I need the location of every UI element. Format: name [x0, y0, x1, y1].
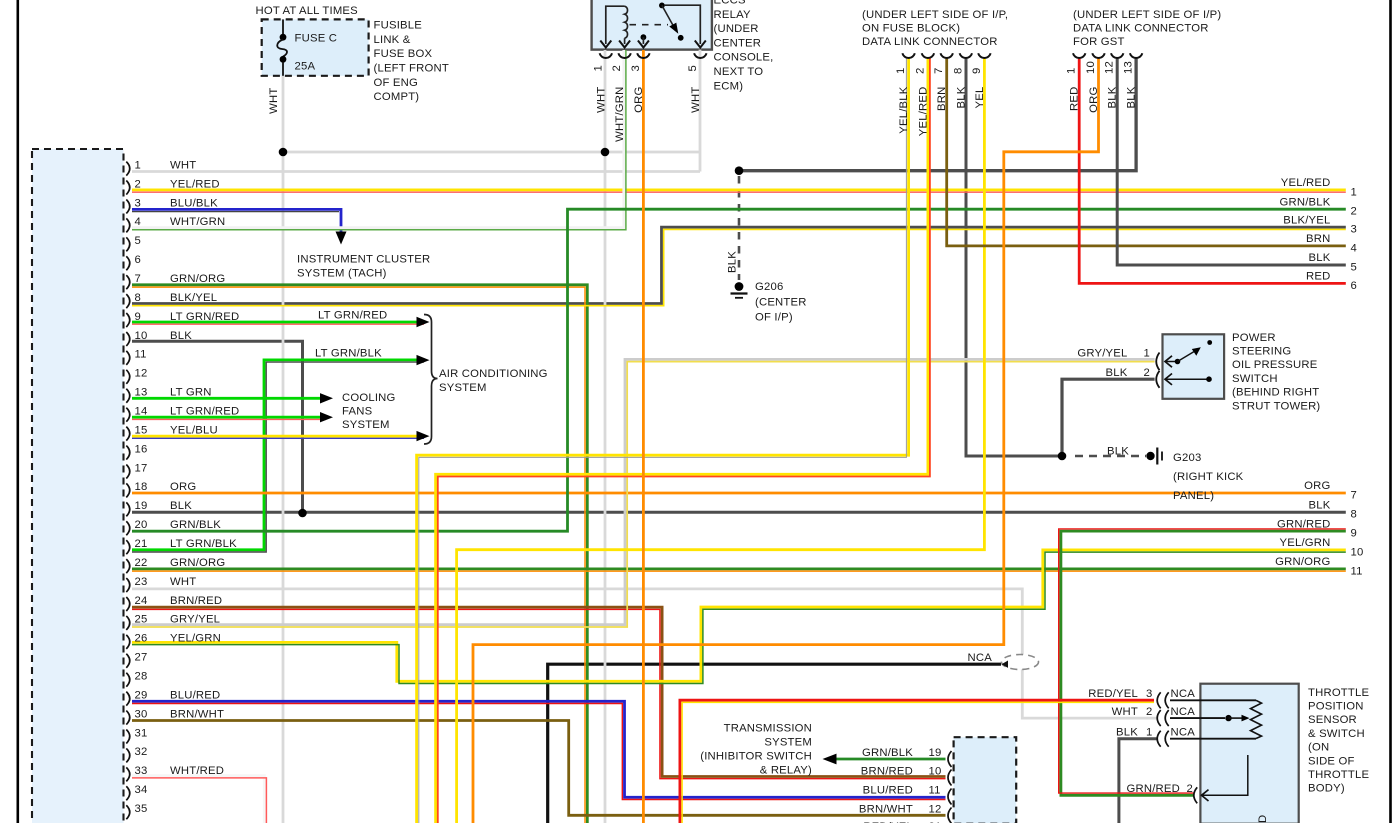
svg-text:27: 27: [135, 652, 148, 664]
svg-text:BLK: BLK: [1309, 252, 1331, 264]
svg-text:GRN/BLK: GRN/BLK: [862, 747, 913, 759]
svg-text:(RIGHT KICK: (RIGHT KICK: [1173, 471, 1244, 483]
svg-text:WHT: WHT: [268, 88, 280, 114]
svg-text:SYSTEM: SYSTEM: [439, 382, 487, 394]
svg-text:20: 20: [135, 519, 148, 531]
svg-text:(LEFT FRONT: (LEFT FRONT: [374, 63, 449, 75]
svg-text:CONSOLE,: CONSOLE,: [714, 52, 774, 64]
svg-text:GRY/YEL: GRY/YEL: [1077, 347, 1127, 359]
svg-text:9: 9: [971, 68, 983, 74]
svg-text:6: 6: [1351, 280, 1357, 292]
svg-text:3: 3: [1351, 224, 1357, 236]
svg-text:33: 33: [135, 765, 148, 777]
svg-text:BLU/BLK: BLU/BLK: [170, 197, 218, 209]
svg-text:12: 12: [135, 368, 148, 380]
svg-text:6: 6: [135, 254, 141, 266]
svg-text:HOT AT ALL TIMES: HOT AT ALL TIMES: [256, 5, 359, 17]
svg-text:G203: G203: [1173, 452, 1201, 464]
svg-text:G206: G206: [755, 281, 783, 293]
svg-text:AIR CONDITIONING: AIR CONDITIONING: [439, 368, 548, 380]
svg-text:INSTRUMENT CLUSTER: INSTRUMENT CLUSTER: [297, 254, 430, 266]
svg-text:CENTER: CENTER: [714, 37, 762, 49]
svg-text:11: 11: [135, 349, 147, 361]
svg-text:BLU/RED: BLU/RED: [863, 785, 913, 797]
svg-text:23: 23: [135, 576, 148, 588]
svg-text:31: 31: [135, 727, 148, 739]
svg-text:7: 7: [933, 68, 945, 74]
svg-text:22: 22: [135, 557, 148, 569]
svg-text:3: 3: [630, 65, 642, 71]
svg-text:25: 25: [135, 614, 148, 626]
svg-text:8: 8: [1351, 509, 1357, 521]
svg-text:FOR GST: FOR GST: [1073, 36, 1125, 48]
svg-text:YEL: YEL: [974, 87, 986, 109]
svg-text:10: 10: [1085, 61, 1097, 74]
svg-text:SYSTEM: SYSTEM: [342, 419, 390, 431]
svg-text:30: 30: [135, 708, 148, 720]
svg-text:LT GRN/BLK: LT GRN/BLK: [170, 538, 237, 550]
svg-text:11: 11: [1351, 565, 1363, 577]
svg-text:2: 2: [1351, 206, 1357, 218]
svg-text:NCA: NCA: [968, 652, 993, 664]
svg-text:1: 1: [895, 68, 907, 74]
svg-text:POSITION: POSITION: [1308, 701, 1364, 713]
svg-text:COMPT): COMPT): [374, 91, 420, 103]
svg-text:16: 16: [135, 443, 148, 455]
svg-text:THROTTLE: THROTTLE: [1308, 687, 1369, 699]
svg-text:FUSE C: FUSE C: [295, 33, 338, 45]
svg-text:4: 4: [135, 216, 141, 228]
svg-text:& SWITCH: & SWITCH: [1308, 728, 1365, 740]
svg-text:YEL/BLU: YEL/BLU: [170, 424, 218, 436]
svg-text:15: 15: [135, 424, 148, 436]
svg-text:YEL/RED: YEL/RED: [1281, 177, 1331, 189]
svg-text:GRN/ORG: GRN/ORG: [1275, 556, 1330, 568]
svg-text:& RELAY): & RELAY): [760, 765, 812, 777]
svg-text:GRY/YEL: GRY/YEL: [170, 614, 220, 626]
svg-text:1: 1: [1351, 186, 1357, 198]
svg-text:OIL PRESSURE: OIL PRESSURE: [1232, 359, 1318, 371]
svg-text:ORG: ORG: [170, 481, 196, 493]
svg-text:BRN: BRN: [936, 87, 948, 111]
svg-text:NEXT TO: NEXT TO: [714, 66, 764, 78]
svg-text:18: 18: [135, 481, 148, 493]
svg-text:DATA LINK CONNECTOR: DATA LINK CONNECTOR: [862, 36, 998, 48]
svg-text:2: 2: [1146, 706, 1152, 718]
svg-text:BLK: BLK: [1107, 86, 1119, 108]
svg-text:OF ENG: OF ENG: [374, 77, 419, 89]
svg-text:21: 21: [135, 538, 148, 550]
svg-text:(UNDER: (UNDER: [714, 23, 759, 35]
svg-text:(INHIBITOR SWITCH: (INHIBITOR SWITCH: [700, 751, 812, 763]
svg-text:BLK: BLK: [955, 86, 967, 108]
svg-text:5: 5: [1351, 261, 1357, 273]
svg-text:BLU/RED: BLU/RED: [170, 689, 220, 701]
svg-text:WHT/RED: WHT/RED: [170, 765, 224, 777]
svg-text:8: 8: [952, 68, 964, 74]
svg-text:LT GRN/RED: LT GRN/RED: [170, 311, 239, 323]
svg-text:(ON: (ON: [1308, 742, 1329, 754]
svg-text:SWITCH: SWITCH: [1232, 373, 1278, 385]
svg-text:24: 24: [135, 595, 148, 607]
svg-text:ORG: ORG: [633, 87, 645, 113]
svg-text:BRN/RED: BRN/RED: [861, 766, 913, 778]
svg-text:2: 2: [135, 178, 141, 190]
svg-text:YEL/GRN: YEL/GRN: [1280, 537, 1331, 549]
svg-text:25A: 25A: [295, 61, 316, 73]
svg-text:3: 3: [1146, 688, 1152, 700]
svg-text:19: 19: [135, 500, 148, 512]
svg-text:9: 9: [1351, 528, 1357, 540]
svg-text:STEERING: STEERING: [1232, 346, 1291, 358]
svg-text:1: 1: [1144, 347, 1150, 359]
svg-text:12: 12: [1104, 61, 1116, 74]
svg-text:SYSTEM (TACH): SYSTEM (TACH): [297, 268, 387, 280]
svg-text:34: 34: [135, 784, 148, 796]
svg-text:GRN/RED: GRN/RED: [1277, 518, 1331, 530]
svg-text:11: 11: [929, 785, 941, 797]
svg-text:8: 8: [135, 292, 141, 304]
svg-text:3: 3: [135, 197, 141, 209]
svg-text:GRN/ORG: GRN/ORG: [170, 273, 225, 285]
svg-text:7: 7: [1351, 489, 1357, 501]
svg-text:OF I/P): OF I/P): [755, 312, 793, 324]
svg-text:TRANSMISSION: TRANSMISSION: [724, 723, 812, 735]
svg-text:SENSOR: SENSOR: [1308, 714, 1357, 726]
svg-text:5: 5: [687, 65, 699, 71]
svg-text:YEL/RED: YEL/RED: [170, 178, 220, 190]
svg-text:STRUT TOWER): STRUT TOWER): [1232, 400, 1320, 412]
svg-text:2: 2: [914, 68, 926, 74]
svg-text:D: D: [1257, 815, 1269, 823]
svg-text:LT GRN/RED: LT GRN/RED: [170, 405, 239, 417]
svg-text:BLK: BLK: [1309, 500, 1331, 512]
svg-text:7: 7: [135, 273, 141, 285]
svg-text:NCA: NCA: [1171, 688, 1196, 700]
svg-text:NCA: NCA: [1171, 727, 1196, 739]
svg-text:35: 35: [135, 803, 148, 815]
svg-text:BRN: BRN: [1306, 233, 1330, 245]
svg-text:RED/YEL: RED/YEL: [1088, 688, 1138, 700]
svg-text:13: 13: [1123, 61, 1135, 74]
svg-text:32: 32: [135, 746, 148, 758]
svg-text:1: 1: [592, 65, 604, 71]
svg-text:GRN/BLK: GRN/BLK: [1280, 196, 1331, 208]
svg-text:14: 14: [135, 405, 148, 417]
svg-text:WHT: WHT: [690, 87, 702, 113]
svg-text:COOLING: COOLING: [342, 392, 396, 404]
svg-text:FUSIBLE: FUSIBLE: [374, 20, 423, 32]
svg-text:4: 4: [1351, 242, 1357, 254]
svg-text:LT GRN/BLK: LT GRN/BLK: [315, 348, 382, 360]
svg-text:THROTTLE: THROTTLE: [1308, 769, 1369, 781]
svg-text:WHT/GRN: WHT/GRN: [170, 216, 225, 228]
svg-text:5: 5: [135, 235, 141, 247]
svg-text:RED: RED: [1306, 271, 1330, 283]
svg-text:LT GRN/RED: LT GRN/RED: [318, 310, 387, 322]
svg-text:BODY): BODY): [1308, 783, 1345, 795]
svg-text:10: 10: [929, 766, 942, 778]
svg-text:RELAY: RELAY: [714, 9, 751, 21]
svg-text:SYSTEM: SYSTEM: [764, 737, 812, 749]
svg-text:GRN/BLK: GRN/BLK: [170, 519, 221, 531]
svg-text:LINK &: LINK &: [374, 34, 411, 46]
svg-text:1: 1: [135, 159, 141, 171]
svg-text:29: 29: [135, 689, 148, 701]
svg-text:ORG: ORG: [1304, 480, 1330, 492]
svg-text:FUSE BOX: FUSE BOX: [374, 48, 433, 60]
svg-text:WHT/GRN: WHT/GRN: [614, 87, 626, 142]
svg-text:12: 12: [929, 804, 942, 816]
svg-text:YEL/GRN: YEL/GRN: [170, 633, 221, 645]
svg-text:ON FUSE BLOCK): ON FUSE BLOCK): [862, 23, 960, 35]
svg-text:BRN/WHT: BRN/WHT: [170, 708, 224, 720]
svg-text:10: 10: [1351, 546, 1364, 558]
svg-text:(CENTER: (CENTER: [755, 296, 807, 308]
svg-text:DATA LINK CONNECTOR: DATA LINK CONNECTOR: [1073, 23, 1209, 35]
svg-text:BLK: BLK: [1107, 446, 1129, 458]
svg-text:BLK: BLK: [1116, 727, 1138, 739]
svg-text:BLK: BLK: [170, 500, 192, 512]
svg-text:2: 2: [611, 65, 623, 71]
svg-text:10: 10: [135, 330, 148, 342]
svg-text:WHT: WHT: [1112, 706, 1138, 718]
svg-text:SIDE OF: SIDE OF: [1308, 755, 1355, 767]
svg-text:ECM): ECM): [714, 80, 744, 92]
svg-text:BLK: BLK: [1126, 86, 1138, 108]
svg-text:BRN/RED: BRN/RED: [170, 595, 222, 607]
svg-text:28: 28: [135, 671, 148, 683]
svg-text:(UNDER LEFT SIDE OF I/P,: (UNDER LEFT SIDE OF I/P,: [862, 9, 1008, 21]
svg-text:FANS: FANS: [342, 406, 373, 418]
svg-text:GRN/RED: GRN/RED: [1127, 783, 1181, 795]
svg-text:BLK: BLK: [170, 330, 192, 342]
svg-text:WHT: WHT: [170, 576, 196, 588]
svg-text:1: 1: [1146, 727, 1152, 739]
svg-text:WHT: WHT: [170, 159, 196, 171]
svg-text:LT GRN: LT GRN: [170, 387, 212, 399]
svg-text:YEL/BLK: YEL/BLK: [898, 86, 910, 134]
svg-text:WHT: WHT: [595, 87, 607, 113]
svg-text:GRN/ORG: GRN/ORG: [170, 557, 225, 569]
svg-text:13: 13: [135, 387, 148, 399]
svg-text:BLK: BLK: [1106, 367, 1128, 379]
svg-text:2: 2: [1187, 783, 1193, 795]
svg-text:YEL/RED: YEL/RED: [917, 87, 929, 137]
svg-text:1: 1: [1066, 68, 1078, 74]
svg-text:26: 26: [135, 633, 148, 645]
svg-text:BLK: BLK: [727, 251, 739, 273]
svg-text:BLK/YEL: BLK/YEL: [1283, 214, 1330, 226]
svg-text:POWER: POWER: [1232, 332, 1276, 344]
svg-text:BRN/WHT: BRN/WHT: [859, 804, 913, 816]
svg-text:9: 9: [135, 311, 141, 323]
svg-text:2: 2: [1144, 367, 1150, 379]
svg-text:17: 17: [135, 462, 148, 474]
svg-text:RED: RED: [1069, 87, 1081, 111]
svg-text:19: 19: [929, 747, 942, 759]
svg-text:ORG: ORG: [1088, 87, 1100, 113]
svg-text:NCA: NCA: [1171, 706, 1196, 718]
svg-text:(BEHIND RIGHT: (BEHIND RIGHT: [1232, 387, 1319, 399]
svg-text:PANEL): PANEL): [1173, 490, 1214, 502]
svg-text:(UNDER LEFT SIDE OF I/P): (UNDER LEFT SIDE OF I/P): [1073, 9, 1221, 21]
svg-text:ECCS: ECCS: [714, 0, 746, 7]
svg-text:BLK/YEL: BLK/YEL: [170, 292, 217, 304]
